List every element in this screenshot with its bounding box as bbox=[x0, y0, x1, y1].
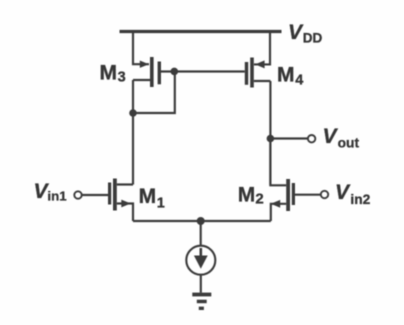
wire M2 source to tail bbox=[271, 204, 286, 221]
wire gate bus M3-M4 bbox=[161, 70, 245, 72]
label M2 bbox=[238, 184, 264, 208]
current source I1 bbox=[186, 246, 215, 275]
wire M1 gate bbox=[82, 194, 108, 196]
wire M4 drain stub bbox=[254, 80, 271, 82]
terminal Vout circle bbox=[308, 135, 315, 142]
node gate junction dot bbox=[171, 68, 179, 76]
wire output bbox=[270, 137, 307, 139]
VDD power rail bbox=[120, 30, 282, 33]
label M1 bbox=[139, 185, 165, 212]
terminal Vin1 circle bbox=[74, 191, 81, 198]
wire M1 source to tail bbox=[117, 204, 133, 222]
svg-text:V: V bbox=[288, 21, 304, 44]
node M3 drain dot bbox=[129, 109, 137, 117]
ground bbox=[192, 293, 211, 310]
wire current source to ground bbox=[200, 275, 202, 293]
transistor M4 bbox=[245, 58, 265, 88]
transistor M2 bbox=[271, 179, 295, 211]
label M3 bbox=[100, 61, 126, 85]
svg-text:M: M bbox=[238, 184, 256, 207]
wire M3 source to VDD bbox=[133, 32, 149, 65]
label M4 bbox=[277, 63, 303, 88]
wire M3 drain stub bbox=[133, 79, 150, 81]
svg-text:V: V bbox=[335, 181, 351, 204]
svg-text:V: V bbox=[323, 125, 339, 148]
svg-text:2: 2 bbox=[255, 191, 263, 208]
label Vout bbox=[323, 125, 360, 150]
svg-text:in1: in1 bbox=[47, 189, 67, 204]
wire tail to current source bbox=[200, 221, 202, 246]
transistor M1 bbox=[108, 179, 131, 211]
svg-text:4: 4 bbox=[295, 72, 303, 88]
transistor M3 bbox=[140, 57, 161, 87]
wire M2 drain stub bbox=[270, 140, 286, 185]
svg-text:3: 3 bbox=[118, 70, 126, 86]
node tail dot bbox=[197, 217, 205, 225]
wire M4 source to VDD bbox=[254, 32, 270, 65]
wire diode connection gate-to-drain bbox=[133, 72, 175, 114]
svg-text:1: 1 bbox=[157, 196, 165, 212]
terminal Vin2 circle bbox=[321, 191, 328, 198]
svg-text:M: M bbox=[277, 63, 295, 86]
label Vin1 bbox=[34, 180, 68, 203]
wire M1 drain stub bbox=[117, 183, 133, 185]
node output dot bbox=[267, 135, 275, 143]
wire left vertical M3 drain to M1 drain bbox=[132, 80, 134, 185]
svg-text:out: out bbox=[338, 135, 360, 150]
svg-text:DD: DD bbox=[303, 31, 323, 46]
label Vin2 bbox=[335, 181, 371, 207]
svg-text:in2: in2 bbox=[350, 192, 370, 207]
svg-text:M: M bbox=[139, 185, 157, 208]
wire right vertical M4 drain to M2 drain bbox=[269, 81, 271, 185]
svg-text:M: M bbox=[100, 61, 118, 84]
wire M2 gate bbox=[295, 194, 321, 196]
label VDD bbox=[288, 21, 323, 46]
wire tail bus bbox=[133, 220, 271, 222]
